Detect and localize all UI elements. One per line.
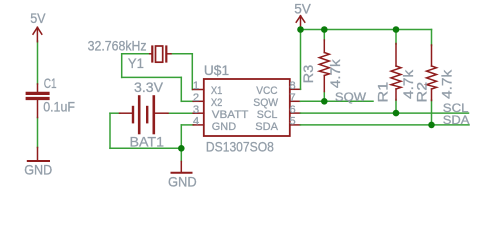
svg-text:R1: R1: [376, 82, 391, 103]
svg-text:SQW: SQW: [253, 97, 278, 109]
svg-text:2: 2: [193, 92, 199, 104]
wire R1 top: [395, 30, 397, 45]
wire 5V rail: [301, 29, 432, 31]
svg-text:5: 5: [289, 116, 295, 128]
pin 8 stub: [290, 88, 301, 90]
junction dot rail/VCC: [297, 26, 304, 33]
svg-text:C1: C1: [44, 76, 57, 91]
pin 4 stub: [193, 124, 204, 126]
wire gnd drop: [180, 148, 182, 161]
wire R3 top: [323, 30, 325, 41]
svg-text:R3: R3: [301, 64, 316, 83]
svg-text:BAT1: BAT1: [130, 134, 165, 149]
ground GND (left): [24, 148, 52, 178]
junction dot battery/gnd: [178, 145, 185, 152]
svg-text:5V: 5V: [294, 2, 311, 17]
wire SQW net: [300, 100, 373, 102]
capacitor C1: [27, 76, 75, 118]
svg-text:Y1: Y1: [128, 56, 144, 71]
wire X2 vertical: [180, 77, 182, 101]
pin 1 stub: [193, 89, 204, 91]
junction dot SDA/R2: [428, 122, 435, 129]
svg-text:1: 1: [193, 80, 199, 92]
resistor R2: [415, 45, 455, 103]
wire SDA net: [300, 124, 469, 126]
svg-text:4: 4: [193, 116, 199, 128]
wire pin4 vertical: [180, 125, 182, 148]
wire: [37, 41, 39, 84]
wire battery left vertical: [109, 113, 111, 148]
IC pin names: [211, 85, 279, 133]
svg-text:GND: GND: [24, 162, 52, 177]
wire crystal right horizontal: [171, 53, 193, 55]
svg-text:4.7k: 4.7k: [328, 59, 343, 88]
wire X2 to pin 2: [181, 100, 193, 102]
svg-text:VBATT: VBATT: [212, 109, 249, 121]
junction dot SCL/R1: [393, 110, 400, 117]
svg-text:R2: R2: [415, 82, 430, 103]
svg-text:0.1uF: 0.1uF: [43, 100, 75, 115]
pin 3 stub: [193, 112, 204, 114]
crystal Y1: [88, 38, 171, 71]
wire R2 top: [431, 30, 433, 46]
wire R1 bottom: [395, 100, 397, 114]
svg-text:GND: GND: [168, 174, 197, 189]
svg-text:SQW: SQW: [335, 91, 366, 104]
svg-text:DS1307SO8: DS1307SO8: [206, 139, 274, 154]
wire R2 bottom: [431, 100, 433, 125]
svg-text:3.3V: 3.3V: [134, 80, 164, 95]
wire X1 vertical: [191, 54, 193, 90]
wire: [37, 118, 39, 148]
svg-text:6: 6: [289, 104, 295, 116]
IC U$1 DS1307: [204, 63, 290, 154]
pin 2 stub: [193, 100, 204, 102]
ground GND (middle): [168, 162, 197, 190]
svg-text:8: 8: [289, 80, 295, 92]
junction dot rail/R3: [321, 26, 328, 33]
junction dot SQW/R3: [321, 98, 328, 105]
wire VCC vertical: [300, 30, 302, 90]
5V supply P+2 (right): [294, 2, 311, 30]
resistor R1: [376, 44, 416, 103]
wire battery left lead: [110, 112, 120, 114]
battery BAT1: [120, 80, 169, 149]
wire pin4 horizontal: [181, 124, 193, 126]
pin 7 stub: [290, 100, 301, 102]
pin number labels: [193, 80, 296, 127]
wire battery to pin3: [168, 112, 194, 114]
resistor R3: [301, 40, 343, 92]
wire SCL net: [300, 112, 468, 114]
svg-text:5V: 5V: [30, 11, 46, 26]
wire battery bottom horizontal: [110, 147, 181, 149]
wire to X2 horizontal: [122, 76, 182, 78]
svg-text:U$1: U$1: [204, 63, 229, 78]
junction dot rail/R1: [393, 26, 400, 33]
wire crystal left horizontal: [122, 53, 150, 55]
pin 6 stub: [290, 112, 301, 114]
svg-text:GND: GND: [212, 121, 236, 133]
svg-text:4.7k: 4.7k: [401, 70, 416, 99]
pin 5 stub: [290, 124, 301, 126]
svg-text:X2: X2: [211, 97, 223, 109]
svg-text:7: 7: [289, 92, 295, 104]
svg-text:4.7k: 4.7k: [439, 70, 454, 99]
svg-text:X1: X1: [211, 85, 223, 97]
svg-text:VCC: VCC: [256, 85, 277, 97]
svg-text:SCL: SCL: [257, 109, 278, 121]
svg-text:SDA: SDA: [255, 121, 278, 133]
wire R3 bottom: [323, 92, 325, 102]
svg-text:32.768kHz: 32.768kHz: [88, 38, 147, 53]
5V supply P+1: [30, 11, 46, 42]
svg-text:SDA: SDA: [443, 114, 470, 127]
svg-text:3: 3: [193, 104, 199, 116]
wire crystal left vertical: [121, 54, 123, 78]
